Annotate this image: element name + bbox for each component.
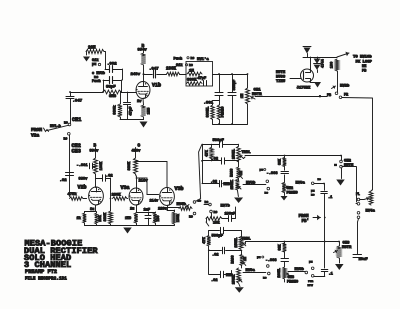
svg-text:RV8a: RV8a [296,181,306,185]
svg-text:RV4a: RV4a [366,210,376,214]
svg-text:V2a: V2a [31,133,40,139]
svg-text:.02: .02 [212,158,218,162]
svg-text:250KL: 250KL [233,149,237,159]
svg-text:Push: Push [174,57,183,62]
svg-text:no: no [189,215,193,219]
svg-text:J175RI: J175RI [297,87,312,91]
svg-text:PL: PL [356,192,360,196]
svg-text:MSTR: MSTR [342,246,352,250]
svg-text:214v: 214v [150,200,159,204]
svg-text:run: run [308,280,313,283]
svg-text:-.003: -.003 [267,172,279,176]
svg-text:475k: 475k [68,192,78,197]
svg-text:394v: 394v [90,150,100,154]
svg-text:-.001: -.001 [77,164,89,168]
svg-text:10uF: 10uF [359,258,369,262]
svg-text:RV1-b: RV1-b [50,124,61,129]
svg-text:RV2b: RV2b [340,84,350,89]
svg-text:FROM: FROM [31,127,42,133]
svg-text:pu: pu [92,63,96,67]
svg-text:1K9: 1K9 [125,217,131,221]
svg-text:.02: .02 [60,179,68,183]
svg-text:1K5: 1K5 [148,107,152,115]
svg-text:250KL: 250KL [231,274,235,284]
svg-text:pu: pu [257,256,261,259]
svg-text:C1k: C1k [176,63,183,68]
svg-text:.02: .02 [212,254,218,258]
svg-text:1M: 1M [240,171,244,175]
svg-text:1M: 1M [244,257,248,261]
svg-text:PRSNC: PRSNC [287,280,299,284]
svg-text:nc: nc [265,192,269,195]
svg-text:nc: nc [263,277,267,280]
svg-text:4744: 4744 [322,58,326,67]
svg-text:20M: 20M [88,47,96,51]
svg-text:FB': FB' [302,219,310,224]
svg-text:RV7b: RV7b [221,204,231,209]
svg-text:pu: pu [309,261,313,264]
svg-text:TIEU: TIEU [276,80,286,84]
svg-text:2u: 2u [130,208,134,212]
svg-text:.02: .02 [211,279,217,283]
svg-text:V3a: V3a [121,185,130,191]
svg-text:33K: 33K [278,243,282,250]
svg-text:CH1: CH1 [72,117,81,123]
svg-text:100: 100 [331,62,335,68]
svg-text:1M: 1M [241,93,245,98]
svg-text:29K: 29K [99,214,103,221]
svg-text:CH3: CH3 [72,149,81,155]
svg-text:RV9b: RV9b [295,267,305,272]
svg-text:220u: 220u [158,208,167,212]
svg-text:CH1: CH1 [254,89,262,93]
svg-text:RV4b: RV4b [177,202,187,207]
svg-text:.02: .02 [106,175,114,179]
svg-text:436v: 436v [132,150,142,154]
svg-text:*: * [319,95,321,99]
svg-text:250KL: 250KL [235,237,239,247]
svg-text:.047: .047 [149,68,159,72]
svg-text:47K: 47K [203,236,207,243]
svg-text:PRSNC: PRSNC [287,191,299,195]
svg-text:47pF: 47pF [198,77,207,81]
svg-text:MUTE: MUTE [276,71,286,75]
svg-text:PRSNC: PRSNC [222,106,226,118]
svg-text:380KL: 380KL [207,107,211,118]
svg-text:100K: 100K [100,161,104,170]
svg-text:.02: .02 [211,180,217,184]
svg-text:nc: nc [318,178,322,181]
svg-text:230K: 230K [166,68,177,72]
svg-text:-.003: -.003 [266,259,278,263]
svg-text:PB: PB [327,94,331,98]
svg-text:.047: .047 [73,100,83,104]
svg-text:RV1'a: RV1'a [197,57,209,62]
svg-text:nc: nc [205,200,209,204]
svg-text:pu: pu [260,169,264,172]
svg-text:TRBL: TRBL [242,151,252,155]
svg-text:FX LOOP: FX LOOP [356,61,373,65]
svg-text:.1: .1 [329,273,333,277]
svg-text:100KL: 100KL [277,268,281,278]
svg-text:243v: 243v [131,73,141,77]
svg-text:V3b: V3b [175,186,184,192]
svg-text:BASS: BASS [230,169,234,177]
svg-text:no: no [191,56,195,60]
svg-text:350pF: 350pF [233,80,237,91]
svg-text:47pF: 47pF [130,106,134,116]
svg-text:47K: 47K [206,149,210,156]
svg-text:TRBL: TRBL [242,237,252,241]
svg-text:C: C [138,144,141,149]
svg-text:FILE RECBPR2.1B1: FILE RECBPR2.1B1 [25,277,67,281]
svg-text:180uF: 180uF [225,213,236,217]
svg-text:no: no [64,137,68,141]
svg-text:V1b: V1b [152,83,161,89]
svg-text:FROM: FROM [299,215,310,219]
svg-text:MUTE: MUTE [344,164,354,168]
svg-text:Push: Push [92,79,101,84]
svg-text:PREAMP FT2: PREAMP FT2 [25,269,57,275]
svg-text:B: B [94,144,97,149]
svg-text:100: 100 [157,215,161,221]
svg-text:nc: nc [64,121,68,125]
svg-text:38pF: 38pF [106,86,116,90]
svg-text:BUSS: BUSS [276,76,286,80]
svg-text:250KL: 250KL [230,180,234,190]
svg-text:nc: nc [189,63,193,67]
svg-text:330K: 330K [104,212,108,221]
svg-text:.1: .1 [328,196,332,200]
svg-text:no: no [214,210,218,214]
svg-text:500pF: 500pF [212,234,224,238]
svg-text:V2b: V2b [78,185,87,191]
svg-text:2v: 2v [137,100,142,104]
svg-text:330K: 330K [128,161,132,170]
svg-text:nrw: nrw [308,284,313,287]
svg-text:330k: 330k [113,105,118,115]
svg-text:N: N [335,164,338,166]
svg-text:3M3: 3M3 [109,95,117,99]
svg-text:BASS: BASS [232,256,236,264]
svg-text:pu: pu [311,190,315,193]
svg-text:1uF: 1uF [144,209,150,213]
svg-text:nc: nc [311,194,315,197]
svg-text:380v: 380v [79,178,89,182]
svg-text:33K: 33K [278,158,282,165]
svg-text:10R: 10R [213,222,220,226]
svg-text:100k: 100k [176,214,181,222]
svg-text:TO RV10b: TO RV10b [353,55,372,60]
svg-text:394v: 394v [138,49,148,53]
